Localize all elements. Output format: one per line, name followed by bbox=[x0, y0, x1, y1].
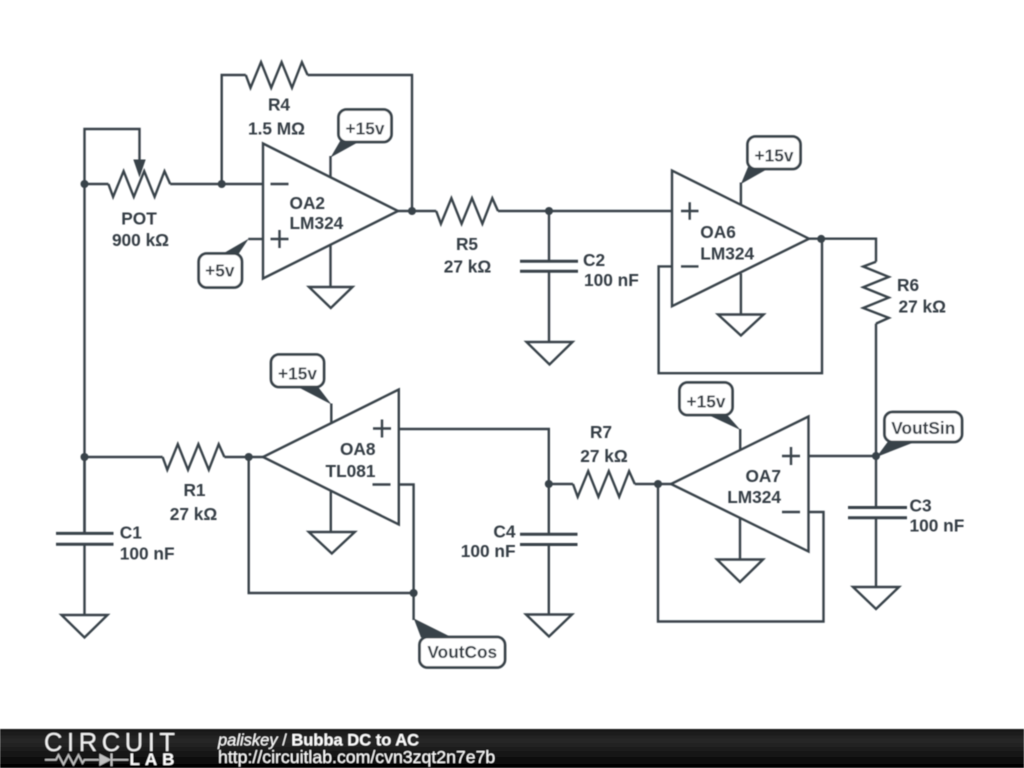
resistor R5 bbox=[436, 198, 498, 224]
svg-text:900 kΩ: 900 kΩ bbox=[112, 230, 169, 250]
svg-text:+15v: +15v bbox=[687, 392, 726, 412]
resistor R6 bbox=[863, 262, 889, 324]
logo resistor squiggle bbox=[45, 755, 99, 765]
resistor R4 bbox=[246, 62, 308, 88]
op-amp OA2 minus sign bbox=[271, 183, 289, 185]
wire OA6 feedback loop bbox=[659, 239, 822, 374]
flag +5v box bbox=[199, 254, 242, 288]
resistor R1 bbox=[163, 444, 225, 470]
svg-text:OA8: OA8 bbox=[340, 439, 376, 459]
svg-text:+15v: +15v bbox=[278, 364, 317, 384]
wire C2 lower lead bbox=[548, 271, 550, 342]
svg-text:R1: R1 bbox=[183, 480, 205, 500]
wire OA2 power pin bbox=[329, 156, 331, 178]
svg-text:+15v: +15v bbox=[755, 146, 794, 166]
flag +15v OA7 box bbox=[680, 383, 733, 416]
ground OA7 bbox=[717, 560, 763, 583]
wire R7 to OA7 bbox=[635, 483, 671, 485]
svg-text:27 kΩ: 27 kΩ bbox=[580, 446, 628, 466]
svg-text:C2: C2 bbox=[583, 250, 605, 270]
op-amp OA6 plus sign bbox=[681, 202, 699, 220]
wire R5 to OA6 bbox=[498, 210, 673, 212]
svg-text:C1: C1 bbox=[120, 523, 142, 543]
svg-text:VoutCos: VoutCos bbox=[427, 642, 497, 662]
wire POT to OA2 inverting input bbox=[170, 183, 263, 185]
wire R1 to OA8 bbox=[224, 456, 263, 458]
wire OA6 power pin bbox=[740, 183, 742, 206]
op-amp OA7 body bbox=[671, 417, 809, 552]
flag VoutCos pointer bbox=[412, 593, 414, 620]
svg-text:100 nF: 100 nF bbox=[910, 516, 965, 536]
potentiometer POT body bbox=[85, 183, 109, 185]
wire OA2 plus input stub bbox=[248, 238, 263, 240]
wire C4 upper lead bbox=[548, 484, 550, 534]
svg-text:R4: R4 bbox=[268, 95, 290, 115]
svg-text:TL081: TL081 bbox=[326, 461, 376, 481]
ground C4 bbox=[526, 615, 572, 637]
svg-text:100 nF: 100 nF bbox=[584, 270, 639, 290]
node junction OA6 output bbox=[817, 235, 825, 243]
wire POT wiper branch bbox=[85, 129, 140, 184]
wire OA8 power pin bbox=[330, 404, 332, 424]
flag +15v OA8 pointer bbox=[295, 386, 332, 405]
svg-text:VoutSin: VoutSin bbox=[891, 418, 955, 438]
wire left rail vertical bbox=[83, 184, 85, 533]
node junction VoutSin bbox=[872, 452, 880, 460]
flag VoutSin pointer bbox=[877, 442, 917, 458]
wire OA2 ground pin bbox=[329, 245, 331, 288]
flag +15v OA6 pointer bbox=[741, 167, 771, 184]
flag +15v OA6 box bbox=[748, 137, 801, 170]
wire OA8 ground pin bbox=[330, 491, 332, 532]
svg-text:27 kΩ: 27 kΩ bbox=[444, 257, 492, 277]
svg-text:27 kΩ: 27 kΩ bbox=[899, 297, 947, 317]
svg-text:OA2: OA2 bbox=[290, 193, 326, 213]
wire R4 left leg bbox=[222, 75, 246, 184]
svg-text:OA7: OA7 bbox=[745, 466, 781, 486]
ground C2 bbox=[527, 342, 573, 365]
node junction OA8 input bbox=[245, 453, 253, 461]
op-amp OA2 body bbox=[263, 144, 398, 279]
svg-text:http://circuitlab.com/cvn3zqt2: http://circuitlab.com/cvn3zqt2n7e7b bbox=[218, 747, 495, 767]
svg-text:R6: R6 bbox=[897, 275, 919, 295]
node junction OA2 output bbox=[408, 207, 416, 215]
wire C1 upper lead bbox=[83, 457, 85, 533]
op-amp OA2 plus sign bbox=[271, 230, 289, 248]
ground C3 bbox=[853, 587, 899, 609]
ground OA8 bbox=[309, 532, 355, 554]
wire OA7 ground pin bbox=[739, 519, 741, 560]
op-amp OA8 minus sign bbox=[373, 483, 391, 485]
svg-text:LM324: LM324 bbox=[727, 487, 781, 507]
wire OA6 output bbox=[809, 239, 876, 262]
svg-text:POT: POT bbox=[121, 209, 157, 229]
svg-text:LAB: LAB bbox=[130, 750, 180, 768]
svg-text:+15v: +15v bbox=[346, 119, 385, 139]
svg-text:27 kΩ: 27 kΩ bbox=[170, 504, 218, 524]
capacitor C3 bbox=[848, 506, 907, 509]
node junction C4 top bbox=[545, 480, 553, 488]
ground OA6 bbox=[718, 315, 764, 336]
svg-text:R7: R7 bbox=[590, 422, 612, 442]
wire C3 lower lead bbox=[875, 518, 877, 587]
capacitor C2 bbox=[520, 260, 578, 263]
node junction R4 tap bbox=[218, 180, 226, 188]
wire OA8 feedback loop bbox=[249, 457, 414, 593]
wire C1 lower lead bbox=[83, 545, 85, 616]
flag +5v pointer bbox=[221, 239, 249, 255]
svg-text:LM324: LM324 bbox=[290, 213, 344, 233]
ground OA2 bbox=[309, 287, 353, 308]
flag +15v OA2 box bbox=[339, 110, 392, 143]
svg-text:LM324: LM324 bbox=[700, 244, 754, 264]
potentiometer POT wiper arrowhead bbox=[133, 160, 145, 178]
wire C3 upper lead bbox=[875, 456, 877, 507]
node junction POT left bbox=[81, 180, 89, 188]
op-amp OA7 plus sign bbox=[782, 447, 800, 465]
node junction OA7 input bbox=[654, 480, 662, 488]
wire OA7 feedback loop bbox=[658, 484, 824, 622]
flag +15v OA8 box bbox=[271, 355, 324, 388]
svg-text:100 nF: 100 nF bbox=[120, 544, 175, 564]
wire OA7 output to VoutSin bbox=[809, 455, 877, 457]
op-amp OA6 body bbox=[672, 171, 809, 307]
op-amp OA7 minus sign bbox=[782, 511, 800, 513]
wire OA8 plus input to C4 node bbox=[399, 429, 549, 484]
node junction VoutCos bbox=[410, 589, 418, 597]
wire C4 lower lead bbox=[548, 545, 550, 615]
resistor R7 bbox=[549, 483, 573, 485]
node junction C1 top bbox=[81, 453, 89, 461]
svg-text:OA6: OA6 bbox=[700, 222, 736, 242]
wire R6 to VoutSin node bbox=[875, 324, 877, 456]
svg-text:1.5 MΩ: 1.5 MΩ bbox=[248, 119, 305, 139]
op-amp OA6 minus sign bbox=[681, 265, 699, 267]
capacitor C1 bbox=[56, 532, 114, 535]
svg-text:R5: R5 bbox=[456, 234, 478, 254]
wire C2 upper lead bbox=[548, 211, 550, 261]
svg-text:+5v: +5v bbox=[205, 261, 235, 281]
flag +15v OA2 pointer bbox=[331, 140, 364, 158]
svg-text:C3: C3 bbox=[910, 496, 932, 516]
flag VoutCos box bbox=[420, 637, 506, 668]
logo diode bbox=[99, 754, 111, 767]
wire OA6 ground pin bbox=[740, 274, 742, 315]
wire OA7 power pin bbox=[739, 429, 741, 450]
footer bar bbox=[0, 729, 1024, 768]
capacitor C4 bbox=[520, 533, 578, 536]
node junction C2 top bbox=[545, 207, 553, 215]
flag +15v OA7 pointer bbox=[703, 413, 741, 431]
wire R4 right leg bbox=[308, 75, 412, 211]
flag VoutSin box bbox=[885, 412, 963, 442]
wire OA2 output to R5 bbox=[398, 210, 436, 212]
wire left rail to R1 bbox=[85, 456, 163, 458]
op-amp OA8 plus sign bbox=[373, 420, 391, 438]
ground C1 bbox=[62, 615, 108, 638]
svg-text:C4: C4 bbox=[493, 522, 515, 542]
op-amp OA8 body bbox=[263, 390, 399, 525]
svg-text:100 nF: 100 nF bbox=[461, 541, 516, 561]
